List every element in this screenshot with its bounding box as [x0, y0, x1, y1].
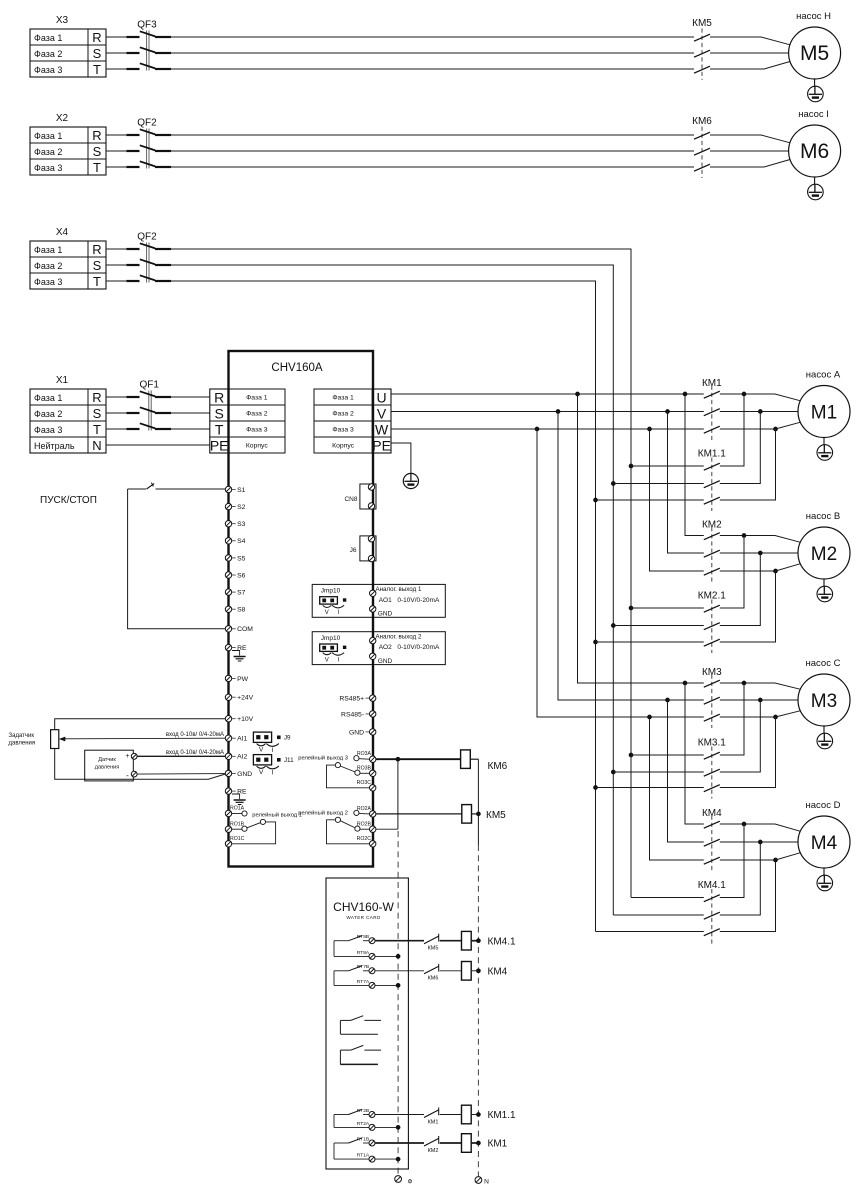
- wire direct T to KM1.1: [596, 499, 704, 501]
- terminal +24V on drive left edge: [225, 694, 253, 702]
- svg-text:S7: S7: [237, 590, 246, 597]
- wire RT8B to aux contact (bold): [375, 940, 424, 942]
- svg-text:M4: M4: [811, 833, 838, 854]
- svg-text:насос C: насос C: [806, 658, 841, 669]
- wire QF2 to KM6 (3 phases): [171, 135, 694, 167]
- wire KM2.1 output phase 1 riser: [720, 536, 744, 609]
- svg-text:КМ6: КМ6: [428, 976, 439, 982]
- terminal COM on drive left edge: [225, 626, 253, 634]
- svg-text:Задатчик: Задатчик: [9, 733, 35, 739]
- svg-text:QF3: QF3: [137, 20, 157, 31]
- card relay contact RT7B: [334, 964, 375, 985]
- terminal block X4: [30, 227, 106, 289]
- wire direct-mains bus R (QF2 to contactors column): [171, 249, 631, 898]
- wire neutral line N (dashed) down to card area: [477, 845, 479, 1176]
- svg-text:PW: PW: [237, 676, 249, 683]
- wire direct T to KM4.1: [596, 931, 704, 933]
- protective earth of M2: [817, 579, 833, 602]
- svg-text:релейный выход 2: релейный выход 2: [298, 809, 348, 816]
- svg-text:M6: M6: [800, 140, 829, 163]
- svg-text:J9: J9: [284, 735, 291, 742]
- node phase tap on RO3A wire: [396, 757, 401, 762]
- coil КМ4.1: [462, 931, 516, 950]
- coil KM6: [461, 750, 508, 772]
- node direct S tap KM2.1: [611, 623, 616, 628]
- wire direct R to KM3.1: [631, 754, 704, 756]
- phase riser RO3A junction down to RO2B: [397, 759, 399, 829]
- wire KM1 output phase 3 to motor M1: [720, 422, 800, 429]
- wire direct S to KM3.1: [613, 771, 704, 773]
- node V tap 2: [665, 409, 670, 414]
- wire RO2B to phase riser: [376, 828, 398, 830]
- svg-text:U: U: [377, 390, 387, 406]
- svg-text:RO1B: RO1B: [230, 821, 245, 827]
- ground symbol at lower RE terminal: [232, 794, 246, 805]
- wire direct-mains bus T: [171, 281, 596, 932]
- terminal PW on drive left edge: [225, 675, 248, 683]
- node V tap 3 on KM3 feed: [665, 698, 670, 703]
- svg-text:S1: S1: [237, 487, 246, 494]
- wire X4 to QF2 (3 phases): [106, 249, 127, 281]
- svg-text:RS485+: RS485+: [339, 696, 364, 703]
- svg-text:Нейтраль: Нейтраль: [34, 441, 75, 451]
- wire KM3 output phase 2 to motor M3: [720, 699, 798, 701]
- contactor contacts КМ1: [702, 378, 722, 440]
- wire aux contact to coil KM4.1 (bold): [440, 940, 462, 942]
- svg-text:T: T: [93, 62, 101, 77]
- svg-text:GND: GND: [349, 729, 364, 736]
- card relay contact RT8B: [334, 934, 375, 956]
- svg-text:Фаза 2: Фаза 2: [34, 261, 62, 271]
- node RT7A on phase line: [396, 983, 401, 988]
- node direct S tap KM3.1: [611, 770, 616, 775]
- wire V drop to KM3 input: [558, 412, 704, 701]
- wire aux contact to coil KM4: [440, 970, 462, 972]
- coil KM5: [462, 805, 506, 824]
- wire KM6 to motor M6: [710, 135, 790, 167]
- wire QF1 to drive input R S T: [171, 397, 210, 429]
- svg-text:PE: PE: [372, 438, 391, 454]
- node W tap 3 on KM3 feed: [647, 715, 652, 720]
- wire sensor - to GND: [137, 773, 225, 776]
- terminal RO2B: [370, 826, 376, 832]
- svg-text:КМ6: КМ6: [692, 116, 712, 127]
- circuit breaker QF2: [127, 118, 172, 169]
- svg-text:S: S: [93, 406, 102, 421]
- svg-text:Фаза 1: Фаза 1: [332, 395, 354, 402]
- svg-text:КМ4: КМ4: [488, 966, 508, 977]
- svg-text:Фаза 3: Фаза 3: [34, 277, 62, 287]
- terminal AO2: [370, 637, 376, 643]
- terminal GND: [349, 729, 376, 737]
- svg-text:давления: давления: [9, 741, 36, 747]
- wire aux contact to coil KM1 (bold): [440, 1142, 462, 1144]
- ground symbol at RE terminal: [232, 651, 246, 662]
- svg-text:AO2: AO2: [379, 644, 392, 651]
- node motor M1 phase 1 junction: [742, 392, 747, 397]
- terminal RO1B: [225, 826, 231, 832]
- protective earth of M4: [817, 868, 833, 891]
- svg-text:X3: X3: [56, 15, 69, 26]
- wire U drop to KM4 input: [685, 683, 704, 824]
- svg-text:КМ1: КМ1: [488, 1139, 508, 1150]
- sensor - terminal: [131, 771, 137, 777]
- node RT8A on phase line: [396, 954, 401, 959]
- pressure sensor box (Датчик давления): [85, 750, 134, 781]
- jumper block J9: [253, 732, 291, 754]
- terminal block X2: [30, 113, 106, 175]
- wire KM2.1 output phase 2 riser: [720, 553, 761, 626]
- auxiliary NC contact КМ1: [424, 1108, 439, 1126]
- wire phase W from drive to KM1: [391, 428, 704, 430]
- motor M4 (насос D): [798, 800, 850, 868]
- svg-text:GND: GND: [378, 658, 393, 665]
- contactor contacts КМ2: [702, 520, 722, 583]
- node U tap 1: [575, 392, 580, 397]
- terminal GND (AO2): [370, 653, 376, 659]
- svg-text:КМ1: КМ1: [428, 1119, 439, 1125]
- motor M3 (насос C): [798, 658, 850, 726]
- svg-text:S: S: [93, 144, 102, 159]
- svg-text:RO2C: RO2C: [357, 836, 372, 842]
- relay output 2 contact RO2B with blade: [335, 817, 371, 831]
- wire RT7B to aux contact: [375, 970, 424, 972]
- wire start/stop switch to S1: [128, 488, 226, 490]
- svg-text:CN8: CN8: [344, 496, 357, 503]
- terminal S6 on drive left edge: [225, 572, 245, 580]
- svg-text:X1: X1: [56, 375, 69, 386]
- svg-text:Фаза 1: Фаза 1: [246, 395, 268, 402]
- svg-text:Фаза 3: Фаза 3: [332, 427, 354, 434]
- svg-text:M3: M3: [811, 691, 837, 712]
- svg-text:Фаза 2: Фаза 2: [34, 49, 62, 59]
- node direct T tap KM2.1: [593, 640, 598, 645]
- relay output 1 contact RO1B with blade: [230, 819, 266, 831]
- relay output 2 common RO2C path: [327, 820, 372, 844]
- node coil КМ4 on N line: [476, 968, 481, 973]
- wire X2 to QF2 (3 phases): [106, 135, 127, 167]
- svg-text:КМ5: КМ5: [486, 810, 506, 821]
- wire coil КМ4.1 to N line: [471, 940, 478, 942]
- wire RT1A to phase line: [375, 1158, 398, 1160]
- node direct S tap KM1.1: [611, 481, 616, 486]
- node motor M2 phase 3 junction: [773, 569, 778, 574]
- coil КМ4: [462, 962, 508, 981]
- svg-text:КМ6: КМ6: [488, 761, 508, 772]
- wire U drop to KM3 input: [578, 394, 704, 683]
- wire direct R to KM1.1: [631, 465, 704, 467]
- svg-text:релейный выход 3: релейный выход 3: [298, 755, 348, 762]
- node RT2A on phase line: [396, 1125, 401, 1130]
- terminal RO3C: [370, 785, 376, 791]
- svg-text:X4: X4: [56, 227, 69, 238]
- terminal S5 on drive left edge: [225, 555, 245, 563]
- svg-text:RO3A: RO3A: [357, 751, 372, 757]
- relay output 3 contact RO3A: [354, 751, 372, 761]
- node coil КМ1 on N line: [476, 1141, 481, 1146]
- contactor contacts КМ5: [692, 18, 712, 80]
- circuit breaker QF1: [127, 380, 172, 431]
- wire RT1B to aux contact (bold): [375, 1142, 424, 1144]
- wire RT2A to phase line: [375, 1126, 398, 1128]
- terminal S7 on drive left edge: [225, 589, 245, 597]
- motor M5 (насос H): [789, 11, 841, 79]
- svg-text:S2: S2: [237, 504, 246, 511]
- card relay contact RT2B: [334, 1108, 375, 1128]
- svg-text:Jmp10: Jmp10: [321, 588, 341, 595]
- svg-text:GND: GND: [378, 611, 393, 618]
- svg-text:N: N: [484, 1179, 489, 1186]
- analog output 1 box: [312, 584, 445, 617]
- node coil КМ4.1 on N line: [476, 938, 481, 943]
- svg-text:V: V: [377, 406, 387, 422]
- svg-text:Фаза 2: Фаза 2: [332, 411, 354, 418]
- terminal +10V on drive left edge: [225, 716, 253, 724]
- svg-text:T: T: [215, 422, 224, 438]
- svg-text:Фаза 1: Фаза 1: [34, 245, 62, 255]
- svg-text:0-10V/0-20mA: 0-10V/0-20mA: [397, 644, 440, 651]
- motor M1 (насос A): [798, 369, 850, 437]
- card relay contact RT7A: [334, 979, 375, 989]
- jumper block J11: [253, 755, 294, 777]
- terminal RE on drive left edge: [225, 788, 247, 796]
- svg-text:RT1A: RT1A: [357, 1153, 370, 1159]
- svg-text:V: V: [325, 657, 329, 663]
- svg-text:-: -: [126, 771, 129, 780]
- terminal N at bottom: [475, 1177, 489, 1186]
- wire KM4 output phase 2 to motor M4: [720, 841, 798, 843]
- node direct R tap KM2.1: [629, 606, 634, 611]
- svg-text:PE: PE: [210, 438, 229, 454]
- wire KM3.1 output phase 3 riser: [720, 717, 776, 788]
- terminal RS485-: [341, 711, 376, 719]
- svg-text:CHV160A: CHV160A: [271, 362, 322, 374]
- wire potentiometer wiper to AI1 (with arrow): [59, 737, 225, 742]
- svg-text:AI2: AI2: [237, 754, 247, 761]
- protective earth of M1: [817, 438, 833, 461]
- svg-text:N: N: [92, 438, 101, 453]
- svg-text:QF1: QF1: [139, 380, 159, 391]
- svg-text:ПУСК/СТОП: ПУСК/СТОП: [40, 495, 97, 506]
- svg-text:Фаза 3: Фаза 3: [34, 65, 62, 75]
- wire X1 neutral N to drive PE input: [106, 444, 210, 446]
- contactor contacts КМ3: [702, 667, 722, 728]
- svg-text:AI1: AI1: [237, 736, 247, 743]
- wire KM4.1 output phase 3 riser: [720, 860, 776, 932]
- svg-text:AO1: AO1: [379, 597, 392, 604]
- wire W drop to KM3 input: [537, 429, 704, 717]
- node motor M2 phase 2 junction: [758, 551, 763, 556]
- terminal S1 on drive left edge: [225, 486, 245, 494]
- terminal RO3A: [370, 756, 376, 762]
- circuit breaker QF2: [127, 232, 172, 283]
- svg-text:насос I: насос I: [798, 109, 829, 120]
- svg-text:RS485-: RS485-: [341, 711, 364, 718]
- svg-text:QF2: QF2: [137, 118, 157, 129]
- svg-text:RO1A: RO1A: [230, 806, 245, 812]
- svg-text:Фаза 2: Фаза 2: [34, 147, 62, 157]
- svg-text:релейный выход 1: релейный выход 1: [252, 812, 302, 819]
- node motor M4 phase 1 junction: [742, 822, 747, 827]
- contactor contacts КМ6: [692, 116, 712, 178]
- svg-text:RO3C: RO3C: [357, 780, 372, 786]
- wire KM4.1 output phase 1 riser: [720, 824, 744, 898]
- relay output 2 contact RO2A: [354, 806, 372, 816]
- node direct T tap KM1.1: [593, 498, 598, 503]
- svg-text:КМ5: КМ5: [692, 18, 712, 29]
- relay output 1 common RO1C path: [230, 822, 276, 844]
- wire direct S to KM1.1: [613, 483, 704, 485]
- wire KM5 to motor M5: [710, 37, 790, 69]
- relay output 3 contact RO3B with blade: [335, 763, 371, 776]
- motor M6 (насос I): [789, 109, 841, 177]
- terminal RO2A: [370, 811, 376, 817]
- svg-text:S: S: [93, 46, 102, 61]
- wire KM2.1 output phase 3 riser: [720, 571, 776, 642]
- svg-text:+10V: +10V: [237, 716, 254, 723]
- connector CN8: [344, 484, 376, 509]
- svg-text:S6: S6: [237, 572, 246, 579]
- svg-text:КМ2: КМ2: [428, 1148, 439, 1154]
- relay output 1 contact RO1A: [230, 806, 247, 817]
- svg-text:КМ4.1: КМ4.1: [488, 936, 516, 947]
- terminal RO1A: [225, 810, 231, 816]
- node direct T tap KM3.1: [593, 785, 598, 790]
- terminal RO3B: [370, 770, 376, 776]
- wire direct R to KM2.1: [631, 607, 704, 609]
- auxiliary NC contact КМ6: [424, 964, 439, 982]
- svg-text:QF2: QF2: [137, 232, 157, 243]
- coil КМ1: [462, 1134, 508, 1153]
- svg-text:R: R: [92, 128, 101, 143]
- wire KM1 output phase 1 to motor M1: [720, 394, 800, 401]
- wire KM1.1 output phase 3 riser: [720, 429, 776, 500]
- analog output 2 box: [312, 632, 445, 665]
- wire direct S to KM4.1: [613, 914, 704, 916]
- card relay contact RT2A: [334, 1121, 375, 1131]
- start/stop switch contact: [147, 483, 155, 489]
- circuit breaker QF3: [127, 20, 172, 71]
- wire phase line Ф (dashed) down to card area: [397, 831, 399, 1175]
- wire KM1 output phase 2 to motor M1: [720, 411, 798, 413]
- terminal GND on drive left edge: [225, 770, 252, 778]
- svg-text:RO1C: RO1C: [230, 836, 245, 842]
- svg-text:V: V: [259, 769, 264, 776]
- wire coil КМ4 to N line: [471, 970, 478, 972]
- relay output 3 common RO3C path: [327, 765, 372, 788]
- svg-text:T: T: [93, 422, 101, 437]
- wire KM4 output phase 3 to motor M4: [720, 853, 800, 860]
- wire KM3 output phase 3 to motor M3: [720, 711, 800, 717]
- node W tap 2: [647, 427, 652, 432]
- wire phase U from drive to KM1: [391, 393, 704, 395]
- svg-text:R: R: [92, 390, 101, 405]
- svg-text:насос B: насос B: [806, 511, 840, 522]
- svg-text:S5: S5: [237, 555, 246, 562]
- coil КМ1.1: [462, 1105, 516, 1124]
- card spare relay contact 2: [340, 1045, 381, 1064]
- svg-text:RT2A: RT2A: [357, 1121, 370, 1127]
- svg-text:V: V: [259, 747, 264, 754]
- node W tap 1: [535, 427, 540, 432]
- terminal RE on drive left edge: [225, 644, 247, 652]
- card relay contact RT1B: [334, 1136, 375, 1159]
- svg-text:WATER CARD: WATER CARD: [346, 915, 381, 920]
- svg-text:давления: давления: [95, 765, 119, 771]
- svg-text:S3: S3: [237, 521, 246, 528]
- CN8 pin 1: [368, 484, 374, 490]
- svg-text:Фаза 1: Фаза 1: [34, 393, 62, 403]
- terminal GND (AO1): [370, 606, 376, 612]
- wire direct-mains bus S: [171, 265, 613, 915]
- svg-text:RT7A: RT7A: [357, 979, 370, 985]
- wire KM1.1 output phase 1 riser: [720, 394, 744, 466]
- wire RO3A to coil KM6 (bold): [376, 758, 461, 760]
- terminal S4 on drive left edge: [225, 538, 245, 546]
- node motor M4 phase 3 junction: [773, 858, 778, 863]
- svg-text:R: R: [214, 390, 224, 406]
- wire RT2B to aux contact: [375, 1114, 424, 1116]
- J6 pin 1: [368, 536, 374, 542]
- svg-text:+24V: +24V: [237, 695, 254, 702]
- svg-text:Фаза 3: Фаза 3: [34, 425, 62, 435]
- svg-text:0-10V/0-20mA: 0-10V/0-20mA: [397, 597, 440, 604]
- svg-text:насос H: насос H: [796, 11, 831, 22]
- svg-text:M1: M1: [811, 403, 837, 424]
- svg-text:R: R: [92, 30, 101, 45]
- svg-text:X2: X2: [56, 113, 69, 124]
- card spare relay contact 1: [340, 1016, 381, 1034]
- svg-text:вход 0-10в/ 0/4-20мА: вход 0-10в/ 0/4-20мА: [166, 750, 224, 756]
- wire KM1.1 output phase 2 riser: [720, 412, 761, 484]
- sensor + terminal: [131, 753, 137, 759]
- wire KM3.1 output phase 2 riser: [720, 700, 761, 772]
- svg-text:Фаза 1: Фаза 1: [34, 131, 62, 141]
- protective earth of M5: [808, 79, 824, 102]
- wire coil KM6 to neutral riser: [470, 758, 478, 760]
- protective earth of M6: [808, 177, 824, 200]
- svg-text:COM: COM: [237, 626, 253, 633]
- wire KM3.1 output phase 1 riser: [720, 683, 744, 755]
- contactor contacts КМ1.1: [698, 449, 726, 512]
- svg-text:насос A: насос A: [806, 369, 841, 380]
- wire phase V from drive to KM1: [391, 411, 704, 413]
- svg-text:Корпус: Корпус: [246, 443, 269, 450]
- wire QF3 to KM5 (3 phases): [171, 37, 694, 69]
- node RT1A on phase line: [396, 1157, 401, 1162]
- svg-text:S8: S8: [237, 607, 246, 614]
- terminal RS485+: [339, 695, 376, 703]
- terminal block X1: [30, 375, 106, 453]
- wire aux contact to coil KM1.1: [440, 1114, 462, 1116]
- svg-text:вход 0-10в/ 0/4-20мА: вход 0-10в/ 0/4-20мА: [166, 732, 224, 738]
- wire W drop to KM4 input: [650, 717, 704, 860]
- terminal AI1 on drive left edge: [225, 735, 247, 743]
- svg-text:GND: GND: [237, 771, 252, 778]
- svg-text:M2: M2: [811, 544, 837, 565]
- svg-text:S: S: [93, 258, 102, 273]
- svg-text:Аналог. выход 2: Аналог. выход 2: [376, 634, 422, 641]
- node direct R tap KM1.1: [629, 464, 634, 469]
- wire V drop to KM4 input: [668, 700, 704, 842]
- wire direct T to KM2.1: [596, 641, 704, 643]
- wire V drop to KM2 input: [668, 412, 704, 554]
- node direct R tap KM3.1: [629, 753, 634, 758]
- wire direct S to KM2.1: [613, 625, 704, 627]
- svg-text:Фаза 2: Фаза 2: [34, 409, 62, 419]
- svg-text:RO2A: RO2A: [357, 806, 372, 812]
- wire X3 to QF3 (3 phases): [106, 37, 127, 69]
